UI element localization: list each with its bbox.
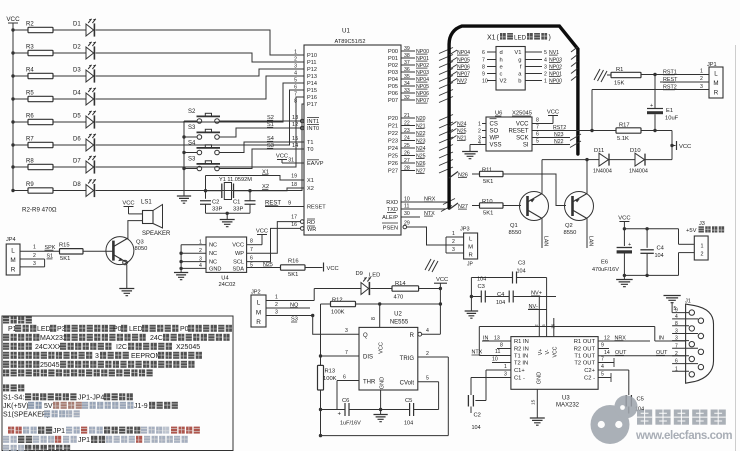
- svg-text:JP1-JP4: JP1-JP4: [78, 395, 105, 402]
- wire rail to R6 to D5: [11, 120, 86, 123]
- svg-text:11: 11: [495, 349, 500, 355]
- connector JP2: [251, 290, 266, 327]
- svg-text:7: 7: [294, 92, 297, 98]
- svg-text:T1: T1: [307, 140, 314, 146]
- svg-text:14: 14: [604, 350, 610, 356]
- svg-text:R15: R15: [59, 243, 70, 249]
- svg-text:33P: 33P: [233, 207, 243, 213]
- wire X2 net: [234, 184, 305, 192]
- svg-text:D3: D3: [73, 68, 81, 74]
- wire rail to R9 to D8: [11, 189, 86, 192]
- ground (U2): [373, 415, 387, 422]
- resistor R17: [616, 123, 641, 142]
- svg-text:h: h: [500, 58, 503, 64]
- wire NTX to T1IN and loop to J1: [472, 327, 686, 356]
- svg-text:+: +: [650, 103, 653, 109]
- svg-text:1: 1: [675, 366, 678, 372]
- svg-text:RESET: RESET: [307, 205, 326, 211]
- op-amp X1 display body: [496, 47, 525, 91]
- wire D6 to U1 pin 6: [96, 90, 305, 145]
- svg-text:WP: WP: [235, 251, 244, 257]
- svg-text:INT0: INT0: [307, 126, 319, 132]
- svg-text:3: 3: [294, 64, 297, 70]
- svg-text:P00: P00: [388, 49, 398, 55]
- svg-text:16: 16: [291, 222, 297, 228]
- svg-text:C3: C3: [518, 261, 525, 267]
- svg-text:9: 9: [675, 308, 678, 314]
- svg-text:V1: V1: [514, 50, 521, 56]
- svg-text:28: 28: [404, 165, 410, 171]
- wire JP3 pins: [446, 231, 464, 253]
- svg-text:1uF/16V: 1uF/16V: [340, 421, 361, 427]
- connector JP4: [6, 237, 20, 275]
- svg-text:C6: C6: [342, 398, 349, 404]
- svg-text:8550: 8550: [509, 230, 522, 236]
- capacitor C6: [338, 398, 362, 427]
- U1 pin T1/T0: [296, 140, 314, 153]
- svg-text:Q2: Q2: [565, 223, 573, 229]
- svg-text:R16: R16: [288, 259, 299, 265]
- wire NRX out: [598, 335, 650, 341]
- svg-text:2: 2: [478, 128, 481, 134]
- svg-text:E6: E6: [601, 260, 608, 266]
- wire D7 to U1 pin 7: [96, 97, 305, 167]
- svg-text:1: 1: [504, 364, 507, 370]
- wire D1 to U1 pin 1: [96, 30, 305, 55]
- wire right edge artifact: [735, 45, 737, 451]
- svg-text:VCC: VCC: [232, 243, 244, 249]
- svg-text:L: L: [257, 299, 261, 306]
- svg-text:21: 21: [404, 113, 410, 119]
- svg-text:17: 17: [291, 215, 297, 221]
- svg-text:9: 9: [601, 343, 604, 349]
- antenna mark (JP3 area): [425, 259, 438, 272]
- wire V+ V- VCC pins: [534, 297, 557, 337]
- svg-text:7: 7: [482, 57, 485, 63]
- LED D5: [73, 111, 96, 129]
- svg-text:R1 IN: R1 IN: [514, 339, 529, 345]
- svg-text:VCC: VCC: [122, 200, 134, 206]
- power VCC (R16): [324, 263, 339, 272]
- capacitor C2: [200, 200, 222, 214]
- svg-text:c: c: [500, 72, 503, 78]
- svg-text:U4: U4: [221, 276, 229, 282]
- svg-text:35: 35: [404, 74, 410, 80]
- svg-text:26: 26: [404, 150, 410, 156]
- wire cap rail left: [470, 278, 473, 312]
- wire U6 VCC pin8: [532, 116, 553, 124]
- svg-text:P22: P22: [388, 131, 398, 137]
- wire C2+ net: [598, 364, 629, 395]
- svg-text:MAX232: MAX232: [40, 335, 67, 342]
- svg-text:C2: C2: [212, 200, 219, 206]
- svg-text:P0: P0: [180, 326, 189, 333]
- svg-text:VCC: VCC: [618, 215, 630, 221]
- svg-text:EEPROM: EEPROM: [131, 353, 162, 360]
- wire Q2 emitter LAN: [587, 218, 594, 249]
- wire Q1 collector: [542, 160, 587, 195]
- svg-text:8: 8: [536, 118, 539, 124]
- svg-text:NC: NC: [209, 243, 217, 249]
- svg-text:P27: P27: [388, 169, 398, 175]
- svg-text:M: M: [256, 309, 261, 316]
- antenna mark (R1): [594, 69, 607, 82]
- svg-text:www.elecfans.com: www.elecfans.com: [635, 429, 732, 442]
- svg-text:SDA: SDA: [232, 266, 244, 272]
- wire R2IN stub: [497, 343, 511, 349]
- svg-text:VCC: VCC: [547, 109, 559, 115]
- svg-text:104: 104: [472, 425, 481, 431]
- svg-text:18: 18: [291, 182, 297, 188]
- wire R16 to VCC: [305, 267, 323, 269]
- svg-text:3: 3: [275, 309, 278, 315]
- svg-text:5K1: 5K1: [483, 211, 493, 217]
- svg-text:VCC: VCC: [276, 153, 288, 159]
- text paragraph line10: [3, 402, 178, 410]
- svg-text:U3: U3: [562, 395, 570, 401]
- svg-text:3: 3: [199, 256, 202, 262]
- ground (U3): [530, 418, 545, 425]
- U2 R pin bubble: [418, 332, 422, 336]
- svg-text:8: 8: [371, 317, 377, 320]
- U1 pin EA/VP: [282, 158, 324, 168]
- resistor R3: [26, 45, 53, 56]
- svg-text:P23: P23: [388, 139, 398, 145]
- svg-text:R: R: [714, 90, 719, 97]
- X1 display left pin wires: [449, 50, 496, 85]
- U2 pin numbers: [343, 317, 429, 382]
- op-amp U1 AT89C51/52 body: [304, 28, 401, 236]
- wire D2 to U1 pin 2: [96, 53, 305, 62]
- wire CVolt to C5: [381, 382, 439, 410]
- svg-text:15: 15: [292, 136, 298, 142]
- svg-text:104: 104: [517, 268, 526, 274]
- svg-text:8: 8: [500, 343, 503, 349]
- U4 right pin numbers: [250, 247, 253, 268]
- svg-text:D5: D5: [73, 114, 81, 120]
- svg-text:P10: P10: [307, 53, 317, 59]
- svg-text:AT89C51/52: AT89C51/52: [335, 39, 366, 45]
- svg-text:2: 2: [426, 351, 429, 357]
- svg-text:2: 2: [544, 71, 547, 77]
- svg-text:JP: JP: [467, 262, 474, 268]
- watermark logo: [591, 395, 638, 444]
- wire JP4 pin1 SPK: [20, 245, 60, 260]
- svg-text:R: R: [410, 333, 415, 339]
- svg-text:P17: P17: [307, 102, 317, 108]
- svg-text:P21: P21: [388, 124, 398, 130]
- svg-text:VCC: VCC: [436, 277, 448, 283]
- svg-text:23: 23: [404, 128, 410, 134]
- capacitor E6 470uF/16V: [592, 242, 632, 275]
- svg-text:Q1: Q1: [510, 223, 518, 229]
- svg-text:J3: J3: [699, 221, 705, 227]
- wire Q2 collector: [585, 158, 588, 195]
- svg-text:E1: E1: [666, 108, 673, 114]
- capacitor C4 (power): [640, 229, 664, 276]
- text block border: [2, 316, 233, 451]
- svg-text:VCC: VCC: [6, 16, 20, 23]
- svg-text:19: 19: [291, 174, 297, 180]
- svg-text:VCC: VCC: [679, 144, 691, 150]
- ground (U6 VSS): [462, 152, 478, 159]
- svg-text:C5: C5: [637, 397, 644, 403]
- svg-text:2: 2: [675, 351, 678, 357]
- svg-text:1: 1: [275, 294, 278, 300]
- svg-text:d: d: [500, 50, 503, 56]
- op-amp U2 NE555 body: [359, 311, 418, 390]
- svg-text:EA/VP: EA/VP: [307, 161, 324, 167]
- svg-text:Q: Q: [363, 333, 368, 339]
- wire rail to R2 to D1: [11, 28, 86, 31]
- svg-text:R12: R12: [332, 298, 343, 304]
- svg-text:1N4004: 1N4004: [593, 169, 612, 175]
- svg-text:P04: P04: [388, 77, 398, 83]
- svg-text:2: 2: [275, 302, 278, 308]
- svg-text:5K1: 5K1: [288, 272, 298, 278]
- svg-text:2: 2: [199, 248, 202, 254]
- svg-text:M: M: [713, 80, 718, 87]
- wire rail to R3 to D2: [11, 51, 86, 54]
- svg-text:T0: T0: [307, 147, 314, 153]
- text paragraph line12: [8, 427, 200, 435]
- svg-text:S1-S4:: S1-S4:: [3, 395, 24, 402]
- svg-text:3: 3: [504, 372, 507, 378]
- svg-text:ALE/P: ALE/P: [382, 215, 398, 221]
- svg-text:6: 6: [482, 50, 485, 56]
- label REST net: [265, 201, 304, 207]
- wire S3 to U1: [219, 122, 304, 137]
- svg-text:5: 5: [536, 139, 539, 145]
- U1 right pin labels P00-P07: [388, 46, 453, 104]
- svg-text:R2: R2: [26, 22, 34, 28]
- svg-text:P07: P07: [388, 98, 398, 104]
- resistor R6: [26, 114, 53, 125]
- svg-text:5K1: 5K1: [483, 179, 493, 185]
- svg-text:3: 3: [700, 84, 703, 90]
- svg-text:P14: P14: [307, 81, 317, 87]
- wire N27 net: [458, 204, 480, 210]
- resistor R16: [281, 259, 306, 278]
- wire Q3 collector to speaker: [128, 221, 143, 240]
- svg-text:C1+: C1+: [514, 368, 525, 374]
- svg-text:8: 8: [675, 321, 678, 327]
- svg-text:b: b: [518, 79, 521, 85]
- svg-text:D4: D4: [73, 91, 81, 97]
- wire crystal bottom: [206, 212, 251, 220]
- svg-text:T2 IN: T2 IN: [514, 361, 528, 367]
- op-amp U6 X25045 body: [486, 111, 532, 151]
- svg-text:V2: V2: [500, 79, 507, 85]
- U1 pin PSEN: [382, 221, 410, 232]
- svg-text:1: 1: [33, 245, 36, 251]
- svg-text:12: 12: [292, 122, 298, 128]
- wire N25 net: [247, 262, 281, 268]
- ground (U4): [174, 268, 188, 279]
- wire rail to R8 to D7: [11, 165, 86, 168]
- svg-text:8: 8: [482, 64, 485, 70]
- svg-text:Q3: Q3: [136, 240, 144, 246]
- svg-text:36: 36: [404, 67, 410, 73]
- svg-text:39: 39: [404, 46, 410, 52]
- svg-text:6: 6: [250, 256, 253, 262]
- diode D10 1N4004: [629, 148, 648, 175]
- svg-text:33P: 33P: [212, 207, 222, 213]
- svg-text:15: 15: [531, 399, 537, 405]
- svg-text:25: 25: [404, 143, 410, 149]
- svg-text:SI: SI: [523, 143, 529, 149]
- svg-text:R5: R5: [26, 91, 34, 97]
- svg-text:C5: C5: [405, 398, 412, 404]
- svg-text:1: 1: [701, 243, 704, 249]
- svg-text:4: 4: [675, 314, 678, 320]
- resistor R5: [26, 91, 53, 102]
- svg-text:P0: P0: [113, 326, 122, 333]
- svg-text:R9: R9: [26, 182, 34, 188]
- svg-text:2: 2: [700, 76, 703, 82]
- svg-text:C4: C4: [657, 245, 665, 251]
- power VCC (speaker): [122, 200, 142, 214]
- U1 pin RXD/TXD: [386, 197, 410, 214]
- svg-text:T1 IN: T1 IN: [514, 354, 528, 360]
- svg-text:8: 8: [294, 99, 297, 105]
- svg-text:R11: R11: [482, 168, 492, 174]
- LED D8: [73, 179, 96, 197]
- svg-text:7: 7: [345, 350, 348, 356]
- svg-text:D1: D1: [73, 22, 81, 28]
- resistor R4: [26, 68, 53, 79]
- svg-text:P12: P12: [307, 67, 317, 73]
- svg-text:R2 OUT: R2 OUT: [574, 347, 596, 353]
- wire N26 net: [458, 172, 480, 178]
- svg-text:100K: 100K: [331, 309, 345, 315]
- wire rail to R5 to D4: [11, 97, 86, 100]
- wire U4 ground rail: [180, 245, 182, 269]
- label X1 display title: [487, 33, 551, 42]
- connector JP1: [707, 62, 723, 98]
- wire JP1 pin2 REST: [660, 76, 709, 83]
- svg-text:D7: D7: [73, 159, 81, 165]
- wire U4 VCC pin 8: [247, 235, 262, 245]
- svg-text:P26: P26: [388, 161, 398, 167]
- svg-text:3: 3: [452, 247, 455, 253]
- ground (Q3): [119, 289, 134, 296]
- svg-text:1: 1: [700, 69, 703, 75]
- svg-text:R: R: [11, 267, 16, 274]
- svg-text:DIS: DIS: [363, 355, 373, 361]
- svg-text:C1 -: C1 -: [514, 376, 525, 382]
- wire C6 to gnd stem: [321, 408, 383, 411]
- text paragraph line4: [3, 343, 200, 351]
- crystal Y1: [206, 177, 253, 200]
- svg-text:RD: RD: [307, 220, 315, 226]
- svg-text:D6: D6: [73, 137, 81, 143]
- svg-text:CVolt: CVolt: [400, 381, 415, 387]
- U1 left pin labels P10-P17: [294, 50, 317, 109]
- svg-text:VCC: VCC: [516, 122, 529, 128]
- svg-text:6: 6: [536, 132, 539, 138]
- wire switch ground rail: [182, 121, 185, 196]
- wire R1 to JP1 pin1: [641, 73, 709, 76]
- svg-text:1: 1: [544, 78, 547, 84]
- svg-text:7: 7: [601, 357, 604, 363]
- svg-text:1: 1: [452, 231, 455, 237]
- svg-text:T2 OUT: T2 OUT: [574, 361, 595, 367]
- text paragraph line11: [3, 410, 80, 418]
- svg-text:P05: P05: [388, 84, 398, 90]
- resistor R8: [26, 159, 53, 170]
- svg-text:VCC: VCC: [327, 266, 339, 272]
- svg-text:7: 7: [675, 343, 678, 349]
- svg-text:g: g: [518, 58, 521, 64]
- svg-text:C2: C2: [474, 413, 481, 419]
- svg-text:WR: WR: [307, 227, 316, 233]
- svg-text:D8: D8: [73, 182, 81, 188]
- wire PSEN to JP3: [407, 227, 446, 245]
- svg-text:24CXXX: 24CXXX: [35, 344, 62, 351]
- wire TRIG to bottom rail: [319, 357, 449, 437]
- svg-text:RXD: RXD: [386, 200, 398, 206]
- wire JP1 pin1 RST1: [663, 69, 703, 76]
- wire JP2 pin2 NQ: [266, 302, 310, 308]
- svg-text:X2: X2: [307, 186, 314, 192]
- wire R10 to Q1 base: [503, 205, 521, 207]
- wire T2IN stub: [492, 357, 511, 363]
- svg-text:4: 4: [544, 57, 547, 63]
- svg-text:WP: WP: [490, 136, 500, 142]
- svg-text:5K1: 5K1: [60, 256, 70, 262]
- U4 left pin wires: [179, 240, 206, 271]
- svg-text:X1: X1: [307, 178, 314, 184]
- svg-text:5: 5: [544, 50, 547, 56]
- svg-text:S2: S2: [188, 109, 196, 115]
- svg-text:104: 104: [404, 421, 413, 427]
- wire THR net: [337, 381, 359, 410]
- wire D3 to U1 pin 3: [96, 69, 305, 76]
- svg-text:8: 8: [250, 239, 253, 245]
- svg-text:2: 2: [33, 253, 36, 259]
- wire JP4 pin3: [20, 259, 45, 267]
- svg-text:C2 -: C2 -: [584, 376, 595, 382]
- svg-text:LED: LED: [37, 326, 51, 333]
- text paragraph line8: [3, 384, 9, 391]
- text paragraph line13: [3, 436, 188, 444]
- capacitor C5 (232): [626, 395, 644, 414]
- wire power top rail: [623, 227, 679, 230]
- svg-text:3: 3: [33, 261, 36, 267]
- svg-text:J1-9: J1-9: [134, 403, 148, 410]
- switch S3: [184, 157, 220, 171]
- svg-text:Y1 11.0592M: Y1 11.0592M: [219, 177, 252, 183]
- switch S4: [184, 141, 220, 155]
- capacitor C3 lower: [471, 276, 486, 302]
- svg-text:THR: THR: [363, 379, 376, 385]
- wire rail to R7 to D6: [11, 143, 86, 146]
- svg-text:U2: U2: [394, 311, 402, 317]
- svg-text:5V: 5V: [44, 403, 53, 410]
- svg-text:4: 4: [601, 364, 604, 370]
- wire U2 GND pin: [380, 390, 382, 415]
- svg-text:5.1K: 5.1K: [617, 136, 629, 142]
- LED D1: [73, 19, 96, 37]
- svg-text:C1: C1: [233, 200, 240, 206]
- wire JP2 pin1: [266, 294, 314, 300]
- svg-text:R8: R8: [26, 159, 34, 165]
- svg-text:9: 9: [482, 71, 485, 77]
- svg-text:2: 2: [452, 239, 455, 245]
- svg-text:VCC: VCC: [553, 346, 559, 357]
- svg-text:4: 4: [426, 328, 429, 334]
